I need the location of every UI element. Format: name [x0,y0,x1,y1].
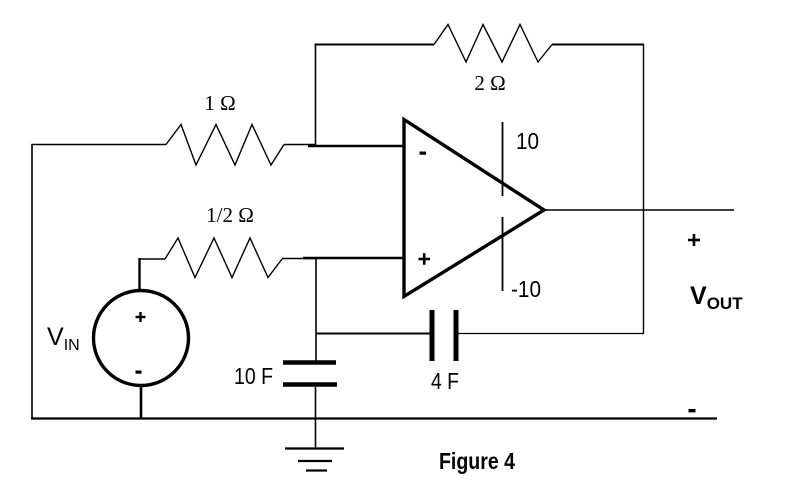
wire feedback top left segment [315,44,435,46]
wire feedback vertical left [315,44,317,146]
svg-text:2 Ω: 2 Ω [474,71,505,95]
label output plus [688,234,700,246]
wire bottom rail [31,417,717,419]
capacitor C2 4F left plate [430,310,435,361]
resistor R3 half ohm [165,238,282,278]
wire left vertical rail [31,144,33,419]
capacitor C1 10F bottom plate [283,382,337,387]
voltage source VIN circle [94,291,189,386]
svg-text:4 F: 4 F [431,368,459,394]
svg-text:1 Ω: 1 Ω [204,91,235,115]
wire source bottom vertical [140,386,143,419]
svg-text:VOUT: VOUT [690,282,743,313]
svg-text:VIN: VIN [47,323,80,354]
wire node vertical to capacitor [315,259,317,361]
ground symbol [285,449,344,471]
wire node to 4F capacitor [316,333,431,335]
wire source top vertical [138,258,140,291]
op-amp supply line top [502,122,504,196]
op-amp minus input sign [420,152,427,155]
resistor R1 1 ohm [166,125,284,166]
svg-text:-10: -10 [511,276,541,302]
wire noninverting to op-amp [303,257,404,260]
svg-text:10: 10 [516,128,539,154]
wire feedback top right segment [552,44,644,46]
wire inverting input right segment [284,144,316,146]
wire 4F capacitor to output vertical [458,333,644,335]
svg-text:Figure 4: Figure 4 [439,448,515,474]
capacitor C1 10F top plate [283,360,336,365]
svg-text:10 F: 10 F [234,363,273,389]
wire noninverting mid segment [282,258,316,260]
wire noninverting left segment [139,258,166,260]
resistor R2 2 ohm [434,25,552,63]
op-amp U1 triangle [404,120,544,297]
svg-text:1/2 Ω: 1/2 Ω [206,203,254,227]
wire inverting input left segment [32,144,167,146]
wire inverting input to op-amp [308,145,404,147]
wire capacitor bottom to rail and ground [315,387,317,449]
capacitor C2 4F right plate [454,310,459,361]
wire output [544,209,734,211]
op-amp plus input sign [419,253,431,265]
op-amp supply line bottom [502,217,504,291]
voltage source plus sign [136,312,146,322]
wire feedback right vertical [643,44,645,333]
voltage source minus sign [136,371,142,374]
label output minus [689,409,696,412]
